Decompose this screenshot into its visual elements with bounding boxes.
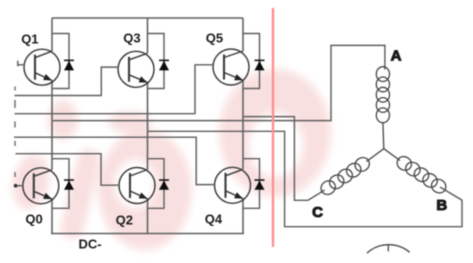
base wire Q5 [15, 65, 214, 114]
transistor Q3 [118, 51, 154, 87]
svg-text:A: A [391, 47, 402, 64]
watermark i dot [48, 100, 78, 140]
base wire Q2 [16, 154, 120, 186]
diode D2 symbol [159, 179, 169, 189]
base wire Q1 [18, 61, 25, 66]
coil B (phase B winding) [394, 154, 448, 196]
transistor Q0 [23, 168, 59, 204]
svg-text:Q3: Q3 [123, 30, 140, 45]
svg-text:DC-: DC- [79, 237, 102, 252]
svg-text:Q5: Q5 [206, 30, 223, 45]
watermark i stem [58, 147, 103, 242]
diode D4 loop [243, 159, 260, 209]
base wire Q4 [14, 137, 215, 184]
diode D0 loop [52, 159, 69, 209]
watermark g [98, 130, 192, 250]
transistor Q1 [24, 49, 60, 85]
phase wire A [52, 45, 385, 120]
transistor Q2 [119, 168, 155, 204]
svg-text:C: C [312, 204, 323, 221]
coil C (phase C winding) [318, 155, 372, 197]
DC+ top rail [52, 17, 243, 19]
motor housing arc [367, 245, 410, 253]
diode D4 symbol [255, 179, 265, 189]
watermark letter fragment left [8, 151, 55, 213]
node Q0 base dot [14, 184, 18, 188]
diode D1 symbol [64, 60, 74, 71]
diode D0 symbol [64, 179, 74, 189]
motor tick [387, 245, 389, 251]
diode D1 loop [52, 34, 69, 89]
neutral node wire [367, 123, 401, 162]
phase wire B [148, 131, 463, 226]
base wire Q3 [15, 67, 119, 95]
diode D5 loop [243, 34, 260, 89]
svg-text:Q4: Q4 [205, 211, 223, 226]
diode D3 symbol [159, 60, 169, 71]
leg 3 wire [242, 18, 244, 234]
left edge stubs [14, 87, 16, 178]
diode D3 loop [148, 34, 165, 89]
svg-text:Q0: Q0 [25, 211, 42, 226]
transistor Q4 [215, 167, 251, 203]
svg-text:Q1: Q1 [21, 31, 38, 46]
watermark [8, 69, 331, 250]
transistor Q5 [213, 49, 249, 85]
diode D5 symbol [255, 60, 265, 71]
DC- bottom rail [51, 233, 244, 235]
red divider line [272, 8, 274, 247]
diode D2 loop [148, 159, 165, 209]
leg 2 wire [147, 18, 149, 234]
leg 1 wire [51, 18, 53, 234]
svg-text:B: B [436, 197, 447, 214]
svg-text:Q2: Q2 [116, 213, 133, 228]
watermark o [219, 69, 331, 197]
coil A (phase A winding) [376, 67, 389, 123]
base wire Q0 [14, 185, 23, 187]
phase wire C [243, 117, 325, 201]
